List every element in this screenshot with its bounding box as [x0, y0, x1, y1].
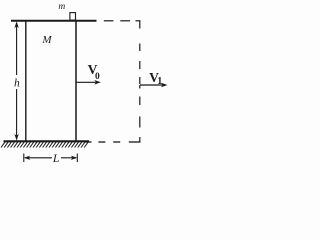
svg-text:m: m [58, 2, 65, 12]
svg-text:h: h [14, 77, 20, 89]
svg-text:1: 1 [157, 76, 162, 87]
svg-text:L: L [52, 151, 60, 165]
svg-text:M: M [41, 34, 52, 46]
svg-text:0: 0 [95, 72, 100, 82]
